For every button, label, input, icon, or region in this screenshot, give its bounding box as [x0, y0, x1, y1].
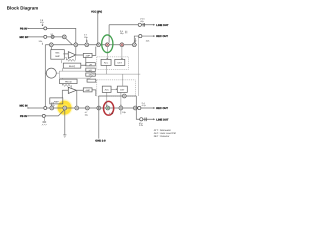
wire EQ out: [81, 57, 86, 65]
mixer B7: [85, 106, 89, 110]
attenuator ATT2: [62, 35, 66, 39]
svg-text:2.2k: 2.2k: [146, 40, 150, 43]
svg-text:GND 1-9: GND 1-9: [95, 140, 106, 143]
dashed box (ALC section bottom): [97, 80, 136, 96]
svg-text:DET : Detector: DET : Detector: [154, 135, 170, 138]
filter box F3: [86, 73, 96, 76]
control line top: [59, 71, 93, 74]
electret mic symbol: [42, 117, 47, 125]
value label near B2: [51, 102, 54, 107]
red highlight ring: [104, 101, 114, 115]
arrow ALC to DET bottom: [111, 89, 117, 90]
node: main top bus: [45, 44, 137, 46]
attenuator B2 (mic volume, yellow): [63, 106, 67, 110]
svg-text:REC OUT: REC OUT: [156, 35, 168, 38]
wire main bottom bus: [28, 107, 137, 109]
svg-text:PB EQ: PB EQ: [65, 81, 72, 84]
svg-text:2.2k: 2.2k: [39, 40, 43, 43]
attenuator A1 on bus: [49, 43, 53, 47]
value label over A5: [120, 30, 124, 35]
attenuator A5: [120, 43, 124, 47]
svg-text:AMP: AMP: [85, 89, 90, 92]
svg-text:LINE OUT: LINE OUT: [156, 24, 169, 27]
wire to ground from B2: [64, 110, 66, 135]
DET box: [115, 59, 125, 65]
svg-text:MIC IN: MIC IN: [20, 36, 28, 39]
wire REC OUT top tap: [134, 36, 154, 43]
capacitor C4: [145, 117, 146, 121]
svg-text:4.7μ: 4.7μ: [142, 104, 147, 107]
capacitor marks above: [142, 102, 147, 107]
PB EQ box U7: [63, 63, 81, 68]
mixer A2 on bus: [74, 43, 78, 47]
attenuator B4 (red highlighted): [106, 106, 110, 110]
legend: [154, 129, 177, 138]
capacitor label 10u over bus: [84, 34, 88, 39]
wire GND rail: [98, 96, 100, 139]
arrow into pin 1: [42, 24, 43, 26]
wire left edge: [44, 45, 46, 108]
node VCC junction: [97, 43, 101, 47]
value label below B5: [122, 111, 126, 114]
arrow + label REC OUT (bottom): [153, 107, 155, 108]
RC to ground below: [134, 38, 136, 42]
resistor R-fb bottom (zigzag): [62, 84, 71, 88]
svg-text:VCC (9V): VCC (9V): [91, 10, 102, 13]
mic amp box U6 bottom: [50, 98, 63, 104]
wire output line bottom: [99, 95, 137, 97]
pin LINE OUT bottom: [140, 118, 143, 121]
wire bus to ALC: [107, 47, 108, 60]
pin P2: [44, 35, 47, 38]
svg-text:LINE OUT: LINE OUT: [156, 118, 169, 121]
mixer A3 on bus: [85, 43, 89, 47]
wire diagonal to bus: [66, 38, 73, 45]
svg-text:PB IN: PB IN: [20, 115, 27, 118]
PB EQ box bottom: [60, 79, 78, 84]
svg-text:MIC: MIC: [55, 52, 59, 55]
ground: [63, 135, 66, 137]
pin LINE OUT top: [138, 23, 141, 26]
svg-text:ALC: ALC: [104, 61, 109, 64]
wire EQ in: [60, 60, 62, 63]
yellow highlight: [56, 99, 74, 117]
svg-text:2.2k: 2.2k: [139, 124, 144, 127]
svg-text:DET: DET: [120, 88, 125, 91]
attenuator B1: [50, 106, 54, 110]
svg-text:AMP: AMP: [54, 100, 59, 103]
wire PB bottom: [28, 110, 64, 116]
op-amp U2: [68, 52, 76, 59]
svg-text:AMP: AMP: [55, 55, 60, 58]
attenuator B5: [119, 106, 123, 110]
DET box bottom: [117, 86, 127, 92]
svg-text:10μ: 10μ: [84, 36, 88, 39]
ALC box bottom: [102, 86, 111, 92]
arrow + label LINE OUT (top): [153, 24, 155, 25]
ALC box: [101, 59, 111, 65]
svg-text:REC OUT: REC OUT: [156, 107, 168, 110]
arrow + label REC OUT (top): [153, 35, 155, 36]
pin REC OUT bottom: [138, 106, 141, 109]
pin REC OUT top: [139, 34, 142, 37]
wire ALC down: [105, 65, 107, 74]
svg-text:47μ: 47μ: [140, 20, 144, 23]
mic amp box U1: [51, 50, 65, 60]
capacitor value label top-left: [40, 19, 44, 24]
dashed box (ALC section top): [97, 57, 129, 69]
svg-text:10μ: 10μ: [85, 113, 88, 116]
amp box U3: [83, 53, 92, 57]
svg-text:2-14: 2-14: [140, 17, 145, 20]
capacitor C2: [143, 23, 144, 27]
pin P1: [44, 27, 47, 30]
bias circle Q1: [46, 68, 56, 78]
svg-text:MIC IN: MIC IN: [20, 105, 28, 108]
node sum: [122, 94, 126, 98]
wire REC OUT bottom: [137, 107, 154, 109]
arrow + label LINE OUT (bottom): [153, 119, 155, 120]
wire VCC rail: [97, 12, 99, 44]
wire bus to DET: [121, 47, 122, 60]
wire LINE OUT bottom: [136, 96, 154, 119]
svg-text:PB IN: PB IN: [20, 27, 27, 30]
mixer B6: [133, 106, 137, 110]
wire boxes to bus bottom: [106, 92, 107, 106]
wire line to DET bottom: [122, 74, 124, 86]
wire LINE OUT top tap: [109, 25, 154, 43]
amp box U5 bottom: [83, 88, 92, 92]
node GND junction: [97, 106, 101, 110]
svg-text:AMP: AMP: [85, 55, 90, 58]
small box right: [87, 79, 96, 82]
wire right rail: [137, 37, 139, 96]
control line shared: [93, 73, 140, 75]
svg-text:PB EQ: PB EQ: [69, 65, 76, 68]
resistor R-fb (zigzag): [65, 56, 75, 61]
filter box F2: [86, 68, 96, 72]
attenuator ATT1: [51, 35, 54, 38]
wire MIC top: [28, 36, 62, 38]
svg-text:10μ: 10μ: [122, 111, 126, 114]
value label below B4: [109, 112, 114, 115]
pin P3: [44, 106, 47, 109]
green highlight ring: [102, 35, 113, 53]
pin P4: [42, 114, 45, 117]
filter box F1: [86, 63, 96, 66]
svg-text:10μ: 10μ: [120, 32, 124, 35]
wire PB EQ to line: [61, 68, 63, 79]
svg-text:DET: DET: [118, 61, 123, 64]
svg-text:Block Diagram: Block Diagram: [7, 6, 39, 11]
mixer A6: [132, 43, 136, 47]
control line bottom: [59, 74, 93, 78]
attenuator A4 (green highlighted): [105, 43, 109, 47]
wire PB top: [28, 28, 76, 44]
mixer B3: [75, 106, 79, 110]
svg-text:ALC: ALC: [105, 88, 110, 91]
op-amp U4 (bottom): [68, 87, 76, 93]
